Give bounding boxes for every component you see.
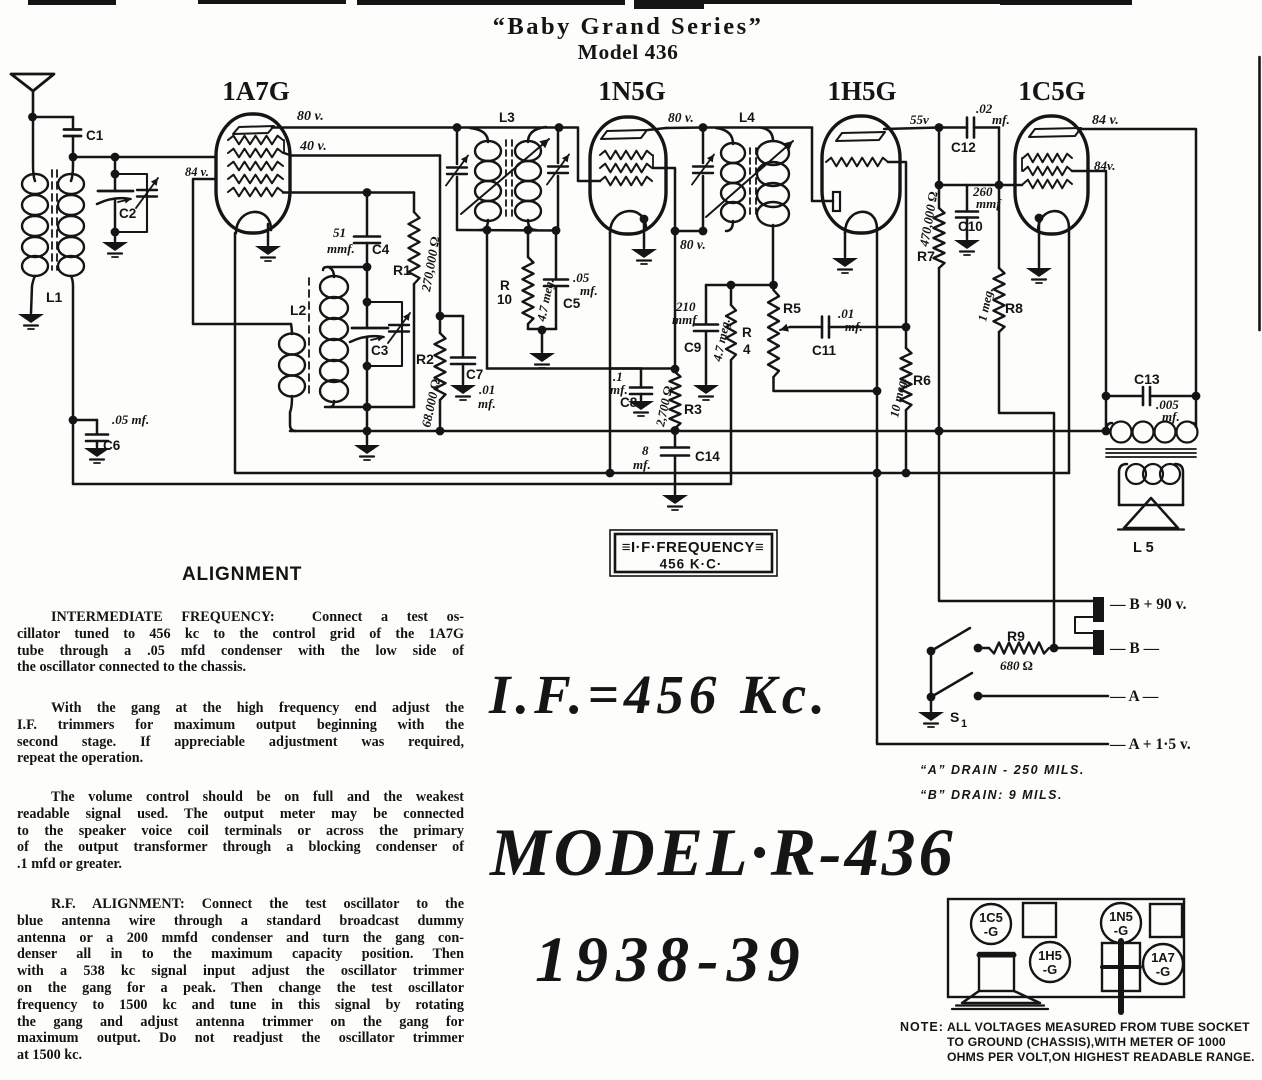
tube 1H5G grid xyxy=(826,158,888,167)
resistor R4 xyxy=(730,285,733,305)
node antenna junction xyxy=(28,113,37,122)
svg-text:456 K·C·: 456 K·C· xyxy=(660,557,723,572)
svg-text:1H5G: 1H5G xyxy=(827,76,896,106)
svg-text:1A7G: 1A7G xyxy=(222,76,290,106)
wire B+ drop xyxy=(939,431,1094,601)
wire wiper to C11 xyxy=(790,326,822,329)
svg-text:— B —: — B — xyxy=(1109,640,1160,657)
svg-text:.01: .01 xyxy=(479,382,495,397)
ground C2 xyxy=(102,242,128,251)
svg-text:84 v.: 84 v. xyxy=(1092,113,1119,128)
inductor L2 grid winding xyxy=(330,268,334,277)
capacitor C9 xyxy=(705,285,708,324)
trimmer L3 secondary xyxy=(548,165,568,167)
wire return bus y484 xyxy=(73,360,731,484)
resistor R2 xyxy=(435,333,446,400)
capacitor C6 xyxy=(73,419,97,422)
ground C10 xyxy=(954,240,980,249)
socket IF can xyxy=(1102,943,1140,991)
capacitor C14 xyxy=(674,431,677,447)
capacitor C7 xyxy=(451,356,475,359)
svg-text:10: 10 xyxy=(497,292,512,307)
svg-text:— A + 1·5 v.: — A + 1·5 v. xyxy=(1109,736,1191,753)
tube 1C5G cathode loop xyxy=(1038,211,1069,231)
ground 1N5G cathode xyxy=(631,249,657,258)
wire 80v bus over L3 xyxy=(457,126,559,129)
node R9 left xyxy=(974,644,983,653)
svg-text:C2: C2 xyxy=(119,206,136,221)
svg-text:R7: R7 xyxy=(917,248,935,264)
node 1N5G cathode xyxy=(640,215,649,224)
wire L4 rail to 1N5G xyxy=(675,230,703,233)
svg-text:R: R xyxy=(742,325,752,340)
svg-text:R6: R6 xyxy=(913,372,931,388)
wire 1H5G cathode ground xyxy=(844,233,847,257)
capacitor C8 xyxy=(640,369,643,388)
trimmer L3 primary xyxy=(447,166,467,168)
ground C7 xyxy=(450,385,476,394)
capacitor C5 xyxy=(555,230,558,279)
wire L3 secondary top to 1N5G grid xyxy=(559,128,600,182)
node L3 primary top xyxy=(453,123,462,132)
resistor R1 xyxy=(409,212,420,284)
inductor L3 secondary xyxy=(528,127,546,142)
wire 1A7G anode grid line xyxy=(283,191,414,194)
node C2 top xyxy=(111,153,120,162)
node L4 primary bottom xyxy=(699,227,708,236)
svg-text:Model 436: Model 436 xyxy=(578,40,679,64)
node C13 left xyxy=(1102,392,1111,401)
wire 1C5G plate 84v xyxy=(1078,129,1196,396)
wire R2 leads xyxy=(439,316,442,333)
scan artifact top edge xyxy=(28,0,1132,9)
svg-text:R3: R3 xyxy=(684,401,702,417)
svg-text:mf.: mf. xyxy=(845,319,863,334)
svg-text:-G: -G xyxy=(984,924,998,939)
resistor R8 xyxy=(998,185,1001,268)
svg-text:1C5G: 1C5G xyxy=(1018,76,1086,106)
node fil bus 1N5G xyxy=(606,469,615,478)
svg-text:C5: C5 xyxy=(563,296,581,311)
wire R7 to C10 rail xyxy=(939,184,999,187)
wire R5 bottom xyxy=(774,377,878,391)
svg-text:-G: -G xyxy=(1114,923,1128,938)
wire A line xyxy=(978,695,1108,698)
wire 40v 1A7G screen xyxy=(284,153,440,156)
socket layout box xyxy=(948,899,1184,997)
wire antenna to C1 xyxy=(33,116,73,119)
node R7 bus xyxy=(935,427,944,436)
inductor L1 primary winding xyxy=(33,117,35,181)
scan artifact right edge xyxy=(1258,57,1261,330)
svg-text:L3: L3 xyxy=(499,110,515,125)
ground L1 primary xyxy=(18,314,44,323)
svg-text:ALL VOLTAGES MEASURED FROM TUB: ALL VOLTAGES MEASURED FROM TUBE SOCKET xyxy=(947,1020,1250,1034)
svg-text:— B + 90 v.: — B + 90 v. xyxy=(1109,596,1187,613)
node bus431 R3 xyxy=(671,426,680,435)
wire 1C5G fil drop xyxy=(1068,228,1071,473)
arrow L4 tuning xyxy=(706,141,793,217)
svg-text:mmf: mmf xyxy=(672,312,698,327)
node R5 top xyxy=(769,281,778,290)
svg-text:C12: C12 xyxy=(951,140,976,155)
wire L3 bottom rail xyxy=(457,229,558,232)
ground 1A7G cathode xyxy=(255,246,281,255)
capacitor C3 variable xyxy=(366,302,369,328)
wire 1H5G plate out xyxy=(888,162,906,327)
inductor L3 core xyxy=(506,140,512,216)
tube 1C5G plate cap xyxy=(1029,128,1081,137)
tube 1A7G plate cap xyxy=(233,126,274,134)
svg-text:C14: C14 xyxy=(695,449,720,464)
wire screen rail down xyxy=(674,231,677,369)
svg-text:L1: L1 xyxy=(46,289,63,305)
wire 1C5G screen out xyxy=(1072,171,1106,431)
wire grid line to 1A7G xyxy=(73,156,216,159)
node B- junction xyxy=(1050,644,1059,653)
wire B+ bus y431 xyxy=(290,430,1105,433)
node R3 bottom xyxy=(671,426,680,435)
svg-text:8: 8 xyxy=(642,443,649,458)
svg-text:C10: C10 xyxy=(958,219,983,234)
wire 1H5G fil long drop xyxy=(877,229,1108,744)
speaker cone L5 xyxy=(1119,504,1183,507)
capacitor C11 xyxy=(821,317,824,338)
wire 1H5G plate top 55v xyxy=(884,128,939,130)
svg-text:R5: R5 xyxy=(783,300,801,316)
inductor L4 primary xyxy=(716,128,733,144)
node L5 primary left xyxy=(1102,427,1111,436)
wire L4 left rail xyxy=(702,127,705,163)
ground 1C5G cathode xyxy=(1026,268,1052,277)
svg-text:4.7 meg.: 4.7 meg. xyxy=(534,277,557,323)
capacitor C2 variable xyxy=(114,157,117,191)
svg-text:1N5: 1N5 xyxy=(1109,909,1133,924)
node C13 right xyxy=(1192,392,1201,401)
svg-text:1N5G: 1N5G xyxy=(598,76,666,106)
wire 84v to 1A7G grid xyxy=(193,179,291,324)
wire 1C5G cathode ground xyxy=(1038,218,1041,267)
wire 1N5G screen to rail xyxy=(653,168,675,231)
ground C6 xyxy=(84,448,110,457)
wiper arrow R5 xyxy=(780,327,790,330)
svg-text:680 Ω: 680 Ω xyxy=(1000,658,1033,673)
tube 1H5G cathode loop xyxy=(845,212,877,233)
wire R8 to B minus xyxy=(999,332,1054,648)
ground C14 xyxy=(662,495,688,504)
svg-text:80 v.: 80 v. xyxy=(680,237,706,252)
socket square 1 xyxy=(1023,903,1056,937)
svg-text:— A —: — A — xyxy=(1109,688,1159,705)
tube 1H5G envelope xyxy=(822,116,900,233)
wire 80v bus 1A7G to L3 xyxy=(272,126,457,129)
transformer L5 primary xyxy=(1106,423,1112,431)
node R5 wiper line xyxy=(873,387,882,396)
svg-text:R2: R2 xyxy=(416,351,434,367)
ground R10 C5 xyxy=(541,330,544,352)
node C6 tap xyxy=(69,416,78,425)
tube 1A7G grids xyxy=(228,136,283,145)
svg-text:1A7: 1A7 xyxy=(1151,950,1175,965)
svg-text:.05 mf.: .05 mf. xyxy=(112,412,149,427)
svg-text:L4: L4 xyxy=(739,110,755,125)
wire 55v down xyxy=(938,128,941,186)
tube 1C5G grids xyxy=(1023,154,1072,163)
svg-text:TO GROUND (CHASSIS),WITH METER: TO GROUND (CHASSIS),WITH METER OF 1000 xyxy=(947,1035,1226,1049)
svg-text:80 v.: 80 v. xyxy=(297,109,324,124)
svg-text:“Baby Grand Series”: “Baby Grand Series” xyxy=(493,13,764,40)
svg-text:55v: 55v xyxy=(910,112,929,127)
svg-text:mf.: mf. xyxy=(992,112,1010,127)
ground oscillator bus xyxy=(366,431,369,444)
tube 1H5G diode plate xyxy=(833,192,840,211)
resistor R5 volume control xyxy=(772,285,775,290)
socket 1N5-G xyxy=(1101,903,1141,943)
arrow L3 tuning xyxy=(461,139,549,214)
node fil bus 1H5G xyxy=(873,469,882,478)
transformer L5 secondary xyxy=(1119,464,1127,505)
svg-text:80 v.: 80 v. xyxy=(668,110,694,125)
wire C4 to C3 xyxy=(366,267,369,302)
wire 40v drop xyxy=(439,156,442,317)
inductor L1 secondary winding xyxy=(71,157,73,181)
svg-text:R: R xyxy=(500,278,510,293)
wire L2 rail xyxy=(325,406,414,409)
tube 1C5G envelope xyxy=(1015,116,1088,234)
terminal clip B+90 xyxy=(1093,597,1104,622)
node bus431 R2 xyxy=(436,427,445,436)
wire 1N5G fil drop xyxy=(609,233,612,473)
wire L4 top bus xyxy=(703,126,812,129)
node L4 primary top xyxy=(699,123,708,132)
node fil bus R6 xyxy=(902,469,911,478)
wire R7 to bus xyxy=(938,268,941,431)
wire R10 C5 rail xyxy=(528,328,556,331)
capacitor C12 xyxy=(939,126,967,129)
svg-text:mmf.: mmf. xyxy=(327,241,355,256)
svg-text:OHMS PER VOLT,ON HIGHEST READA: OHMS PER VOLT,ON HIGHEST READABLE RANGE. xyxy=(947,1050,1255,1064)
svg-text:51: 51 xyxy=(333,225,346,240)
wire L4 to 1H5G grid xyxy=(812,128,833,202)
svg-text:L2: L2 xyxy=(290,302,307,318)
wire C3 to L2 rail xyxy=(366,366,369,407)
svg-text:1 meg.: 1 meg. xyxy=(975,286,996,322)
wire B- line xyxy=(1054,647,1093,650)
node bus431 C3 xyxy=(363,427,372,436)
resistor R10 xyxy=(527,230,530,257)
inductor L4 secondary xyxy=(760,128,773,142)
ground C8 xyxy=(628,401,654,410)
tube 1H5G plate cap xyxy=(836,132,885,141)
svg-text:≡I·F·FREQUENCY≡: ≡I·F·FREQUENCY≡ xyxy=(622,539,765,556)
ground C9 xyxy=(693,385,719,394)
node C1 bottom xyxy=(69,153,78,162)
node 55v junction xyxy=(935,123,944,132)
IF frequency box xyxy=(610,530,777,576)
wire C12 down xyxy=(998,128,1001,186)
tube 1N5G grids xyxy=(600,151,652,160)
wire 1N5G plate top to L4 xyxy=(648,128,666,130)
ground S1 xyxy=(918,712,944,721)
svg-text:NOTE:: NOTE: xyxy=(900,1020,944,1034)
socket speaker xyxy=(979,953,1014,991)
tube 1N5G cathode loop xyxy=(610,211,646,233)
node L3 secondary top xyxy=(555,123,564,132)
capacitor C10 xyxy=(966,185,969,211)
svg-text:C13: C13 xyxy=(1134,371,1160,387)
inductor L1 core xyxy=(52,170,57,270)
svg-text:L 5: L 5 xyxy=(1133,540,1154,556)
svg-text:C11: C11 xyxy=(812,343,837,358)
wire L2 top to C4 xyxy=(323,267,367,270)
svg-text:-G: -G xyxy=(1043,962,1057,977)
svg-text:mf.: mf. xyxy=(580,283,598,298)
svg-text:1C5: 1C5 xyxy=(979,910,1003,925)
svg-text:R1: R1 xyxy=(393,262,411,278)
svg-text:1: 1 xyxy=(961,718,967,730)
svg-text:1938-39: 1938-39 xyxy=(535,924,808,996)
svg-text:mf.: mf. xyxy=(633,457,651,472)
wire L3 primary return xyxy=(486,230,489,369)
wire 1A7G cathode to ground xyxy=(267,224,270,245)
capacitor C4 xyxy=(366,193,369,237)
tube 1N5G plate cap xyxy=(601,130,647,139)
svg-text:R8: R8 xyxy=(1005,300,1023,316)
node bus431 R7 xyxy=(935,427,944,436)
node 1C5G cathode xyxy=(1035,214,1044,223)
svg-text:C3: C3 xyxy=(371,343,389,358)
inductor L3 primary xyxy=(470,128,488,142)
svg-text:-G: -G xyxy=(1156,964,1170,979)
wire 84v to L5 primary xyxy=(1195,396,1198,427)
transformer L5 core xyxy=(1106,448,1196,450)
wire filament bus y473 xyxy=(235,233,1069,473)
wire L3 left rail xyxy=(456,127,459,164)
ground 1H5G cathode xyxy=(832,258,858,267)
inductor L2 core xyxy=(308,278,310,398)
node C11 right xyxy=(902,323,911,332)
wire 1N5G cathode ground xyxy=(643,219,646,248)
wire C7 tap xyxy=(440,315,463,318)
socket 1C5-G xyxy=(971,904,1011,944)
svg-text:C9: C9 xyxy=(684,340,701,355)
capacitor C1 xyxy=(72,117,75,129)
alignment instructions text xyxy=(182,564,302,586)
svg-text:“B” DRAIN: 9 MILS.: “B” DRAIN: 9 MILS. xyxy=(920,788,1063,802)
svg-text:40 v.: 40 v. xyxy=(299,139,327,154)
svg-text:R9: R9 xyxy=(1007,628,1025,644)
svg-text:“A” DRAIN - 250 MILS.: “A” DRAIN - 250 MILS. xyxy=(920,763,1085,777)
trimmer L4 primary xyxy=(693,165,713,167)
svg-text:C4: C4 xyxy=(372,242,390,257)
resistor R9 xyxy=(978,647,989,650)
socket square 2 xyxy=(1150,904,1182,937)
wire grid rail y285 xyxy=(706,284,774,287)
terminal clip B- xyxy=(1093,630,1104,655)
inductor L4 core xyxy=(750,148,756,218)
tube 1N5G envelope xyxy=(590,117,666,234)
svg-text:84 v.: 84 v. xyxy=(185,165,209,179)
socket 1H5-G xyxy=(1030,942,1070,982)
svg-text:I.F.=456 Kc.: I.F.=456 Kc. xyxy=(488,664,830,725)
wire grid3 entry xyxy=(999,184,1022,187)
resistor R7 xyxy=(938,185,941,208)
svg-text:.02: .02 xyxy=(976,101,993,116)
svg-text:1H5: 1H5 xyxy=(1038,948,1062,963)
svg-text:C7: C7 xyxy=(466,367,483,382)
resistor R3 xyxy=(674,369,677,372)
socket 1A7-G xyxy=(1143,944,1183,984)
svg-text:C1: C1 xyxy=(86,128,104,143)
svg-text:2,700 Ω: 2,700 Ω xyxy=(653,384,675,428)
tube 1A7G envelope xyxy=(216,114,290,233)
capacitor C13 xyxy=(1106,395,1143,398)
wire R1 bottom xyxy=(413,284,416,407)
svg-text:MODEL·R-436: MODEL·R-436 xyxy=(489,814,956,890)
switch S1 xyxy=(927,647,936,656)
node 1N5G screen rail xyxy=(671,227,680,236)
antenna xyxy=(11,74,54,91)
inductor L2 fil winding xyxy=(291,324,292,334)
svg-text:mf.: mf. xyxy=(478,396,496,411)
wire clip bracket xyxy=(1075,617,1093,633)
svg-text:4: 4 xyxy=(743,342,751,357)
tube 1A7G cathode loop xyxy=(236,212,271,233)
node C3 top xyxy=(363,298,372,307)
wire L3 right rail xyxy=(557,127,560,163)
resistor R6 xyxy=(905,327,908,348)
svg-text:S: S xyxy=(950,709,959,725)
wire corner to R1 xyxy=(413,193,416,213)
node R4 top xyxy=(727,281,736,290)
node C4 bottom xyxy=(363,263,372,272)
wire C8 tap xyxy=(610,367,641,370)
